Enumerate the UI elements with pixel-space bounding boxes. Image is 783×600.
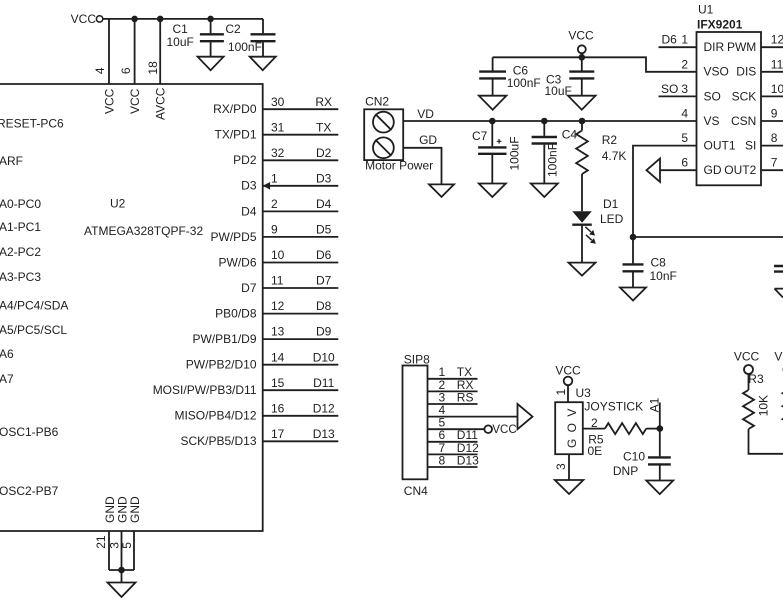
connector CN4 SIP8 body [403,352,431,498]
svg-text:A3-PC3: A3-PC3 [0,270,41,284]
svg-text:13: 13 [271,325,285,339]
svg-text:VCC: VCC [128,88,142,114]
U2 pin 9 / net D5 [210,223,338,244]
svg-text:GD: GD [704,163,722,177]
svg-text:D12: D12 [313,401,335,415]
svg-text:MOSI/PW/PB3/D11: MOSI/PW/PB3/D11 [153,383,257,397]
wire U2 pin 6 (VCC) [131,16,138,84]
svg-text:30: 30 [271,95,285,109]
U1 pin labels VS/CSN [704,114,757,128]
U2 pin 11 / net D7 [241,274,338,295]
svg-text:10: 10 [271,248,285,262]
U2 pin 31 / net TX [214,120,338,141]
U2 pin 30 / net RX [213,95,338,116]
CN4 pin 1 / net TX [428,365,478,379]
resistor R5 0E [588,423,647,458]
capacitor C3 10uF [545,72,595,98]
svg-text:A1-PC1: A1-PC1 [0,220,41,234]
svg-text:VCC: VCC [568,29,594,43]
ground (C10) [646,481,673,495]
U2 pin 10 / net D6 [218,248,338,269]
ground (D1) [569,263,596,276]
svg-text:A5/PC5/SCL: A5/PC5/SCL [0,323,67,337]
svg-text:8: 8 [439,453,446,467]
svg-text:3: 3 [554,463,568,470]
svg-text:U3: U3 [576,386,592,400]
U3 pin 3 wire [554,454,569,480]
svg-text:GD: GD [419,133,437,147]
svg-text:18: 18 [146,61,160,75]
CN4 pin 2 / net RX [428,378,478,392]
svg-text:OUT2: OUT2 [724,163,756,177]
svg-text:4: 4 [93,67,107,74]
svg-text:5: 5 [681,131,688,145]
svg-text:1: 1 [681,33,688,47]
capacitor C2 100nF [225,19,275,57]
svg-text:ARF: ARF [0,154,23,168]
U2 pin 17 / net D13 [180,427,338,448]
svg-text:10: 10 [771,82,783,96]
ground (C8) [620,288,646,301]
capacitor C9 (cut off at edge) [774,266,783,272]
wire R5 to node A1 [646,425,663,432]
svg-text:D4: D4 [316,197,332,211]
svg-text:SCK/PB5/D13: SCK/PB5/D13 [180,434,256,448]
svg-text:ATMEGA328TQPF-32: ATMEGA328TQPF-32 [84,224,203,238]
capacitor C8 10nF [623,237,677,288]
CN4 pin 7 / net D12 [428,441,480,455]
svg-text:1: 1 [271,171,278,185]
svg-text:3: 3 [681,82,688,96]
IC U2 ATMEGA328TQPF-32 body [0,84,263,531]
svg-text:2: 2 [591,416,598,430]
svg-text:AVCC: AVCC [154,87,168,120]
connector CN2 Motor Power [364,95,433,173]
wire R3 to edge [749,429,783,454]
ground (U3) [555,480,584,494]
svg-text:A6: A6 [0,347,14,361]
svg-text:C10: C10 [623,449,645,463]
svg-text:OSC2-PB7: OSC2-PB7 [0,484,59,498]
svg-text:D6: D6 [662,33,678,47]
wire U2 pin 18 (AVCC) [157,16,164,84]
svg-text:PWM: PWM [727,40,756,54]
svg-text:SIP8: SIP8 [404,352,430,366]
power flag VCC (R3) [734,350,760,391]
svg-text:9: 9 [271,223,278,237]
power flag VCC (U2 top) [71,12,103,26]
ground (C9, cut off) [775,289,783,298]
svg-text:A0-PC0: A0-PC0 [0,197,41,211]
capacitor C6 100nF [479,57,541,95]
U1 pin labels OUT1/SI [704,139,757,153]
svg-text:31: 31 [271,120,285,134]
svg-text:D11: D11 [313,376,334,390]
svg-text:C8: C8 [651,255,667,269]
U1 pin 11 wire [761,57,783,72]
svg-text:C4: C4 [562,128,578,142]
resistor R2 4.7K [576,118,626,212]
svg-text:0E: 0E [588,444,603,458]
power flag VCC (R4, cut off) [774,350,783,375]
svg-text:OUT1: OUT1 [704,139,736,153]
capacitor C4 100nF [532,118,578,184]
svg-text:RX: RX [315,95,332,109]
svg-text:D9: D9 [316,325,332,339]
wire VD rail (CN2 to U1 pin 4 VS) [403,120,696,122]
svg-text:16: 16 [271,401,285,415]
svg-text:10uF: 10uF [167,35,194,49]
svg-text:100nF: 100nF [507,76,541,90]
ground (CN2 GD) [429,184,454,197]
svg-text:2: 2 [271,197,278,211]
svg-text:VCC: VCC [734,350,760,364]
svg-text:U1: U1 [698,3,714,17]
svg-text:32: 32 [271,146,285,160]
power flag VCC (CN4 pin 5) [484,424,516,436]
svg-text:9: 9 [771,107,778,121]
ground (C6) [479,96,507,110]
wire U2 pin 4 (VCC) [108,19,110,84]
svg-text:SO: SO [661,82,678,96]
svg-text:G O V: G O V [565,407,579,448]
U1 pin 9 wire [761,107,783,122]
svg-text:21: 21 [94,535,108,549]
svg-text:15: 15 [271,376,285,390]
LED D1 [572,197,623,244]
svg-text:PD2: PD2 [233,153,257,167]
U1 pin labels GD/OUT2 [704,163,757,177]
svg-text:14: 14 [271,350,285,364]
svg-text:OSC1-PB6: OSC1-PB6 [0,425,59,439]
svg-text:12: 12 [771,33,783,47]
svg-text:D3: D3 [241,179,257,193]
svg-text:D13: D13 [457,453,479,467]
svg-text:PW/D6: PW/D6 [218,255,256,269]
svg-text:D1: D1 [603,197,619,211]
svg-text:D8: D8 [316,299,332,313]
svg-text:7: 7 [771,156,778,170]
svg-text:VCC: VCC [774,350,783,364]
svg-text:RESET-PC6: RESET-PC6 [0,117,64,131]
capacitor C10 DNP [613,429,671,481]
U1 pin 3 wire / net SO [659,82,697,97]
svg-text:VD: VD [417,107,434,121]
svg-text:CN4: CN4 [404,484,428,498]
svg-text:LED: LED [600,212,624,226]
svg-text:A2-PC2: A2-PC2 [0,245,41,259]
svg-text:RS: RS [457,390,474,404]
svg-text:D2: D2 [316,146,332,160]
svg-text:4: 4 [681,107,688,121]
svg-text:D3: D3 [316,171,332,185]
bus arrow (CN4 pin 4) [518,404,533,429]
U2 pin 32 / net D2 [233,146,338,167]
CN4 pin 6 / net D11 [428,428,479,442]
svg-text:RX/PD0: RX/PD0 [213,102,257,116]
U1 pin 7 wire [761,156,783,171]
U2 pin 13 / net D9 [192,325,338,346]
svg-text:11: 11 [771,57,783,71]
svg-text:PW/PD5: PW/PD5 [210,230,256,244]
svg-text:1: 1 [554,389,568,396]
svg-text:10K: 10K [757,395,771,416]
capacitor C7 100uF (polarized) [472,118,522,184]
svg-text:JOYSTICK: JOYSTICK [584,399,643,413]
svg-text:MISO/PB4/D12: MISO/PB4/D12 [174,409,256,423]
U2 pin 14 / net D10 [186,350,339,371]
svg-text:VSO: VSO [704,65,729,79]
svg-text:VCC: VCC [71,12,97,26]
svg-text:SCK: SCK [732,89,757,103]
svg-text:VCC: VCC [102,88,116,114]
svg-text:Motor Power: Motor Power [365,159,433,173]
U1 pin labels SO/SCK [704,89,757,103]
svg-text:100nF: 100nF [546,143,560,177]
svg-text:D10: D10 [313,350,335,364]
CN4 pin 3 / net RS [428,390,478,404]
svg-text:A4/PC4/SDA: A4/PC4/SDA [0,299,68,313]
U2 pin 12 / net D8 [215,299,338,320]
net label A1 wire [648,397,662,428]
ground (C7) [479,184,506,198]
power flag VCC (C3/U1) [568,29,594,71]
svg-text:D4: D4 [241,204,257,218]
CN4 pin 4 [428,403,518,417]
svg-text:VS: VS [704,114,720,128]
svg-text:GND: GND [128,496,142,523]
U1 pin 1 wire / net D6 [659,33,697,48]
svg-text:PW/PB2/D10: PW/PB2/D10 [186,358,257,372]
U2 pin 2 / net D4 [241,197,338,218]
ground (C2) [250,57,276,70]
wire GD (CN2 to ground) [403,148,441,185]
svg-text:R3: R3 [748,372,764,386]
svg-text:100nF: 100nF [228,40,262,54]
svg-text:PW/PB1/D9: PW/PB1/D9 [192,332,256,346]
U2 pin 16 / net D12 [174,401,338,422]
wire U2 GND pins to ground [109,531,134,583]
svg-text:12: 12 [271,299,285,313]
svg-text:8: 8 [771,131,778,145]
U2 pin 15 / net D11 [153,376,339,397]
connector U3 JOYSTICK body [555,386,643,454]
svg-text:C7: C7 [472,129,488,143]
U1 pin labels VSO/DIS [704,65,757,79]
svg-text:6: 6 [681,156,688,170]
U1 pin 8 wire [761,131,783,146]
svg-text:100uF: 100uF [508,136,522,170]
svg-text:10nF: 10nF [650,269,677,283]
svg-text:TX/PD1: TX/PD1 [214,128,256,142]
svg-text:IFX9201: IFX9201 [697,17,743,31]
wire VCC rail (C6/C3 to U1 pin 2 VSO) [493,54,697,72]
svg-text:17: 17 [271,427,285,441]
svg-text:D13: D13 [313,427,335,441]
svg-text:DIR: DIR [704,40,725,54]
U1 pin 10 wire [761,82,783,97]
capacitor C1 10uF [167,16,224,57]
ground (C4) [531,184,558,198]
U3 pin 2 wire [583,416,605,430]
svg-text:11: 11 [271,274,284,288]
CN4 pin 5 [428,416,485,430]
U1 pin 12 wire [761,33,783,48]
CN4 pin 8 / net D13 [428,453,480,467]
power flag VCC (U3) [555,364,581,403]
svg-text:U2: U2 [110,197,126,211]
ground (C3) [568,96,596,110]
svg-text:PB0/D8: PB0/D8 [215,307,257,321]
U2 pin 1 / net D3 [241,171,338,192]
U1 pin 6 wire with arrow (GD) [647,156,697,182]
svg-text:R2: R2 [602,133,618,147]
ground (C1) [198,57,224,70]
svg-text:A1: A1 [648,397,662,412]
svg-text:DNP: DNP [613,464,638,478]
wire OUT1 (U1 pin 5) [630,146,783,241]
svg-text:SO: SO [704,89,721,103]
svg-text:D7: D7 [241,281,257,295]
svg-text:VCC: VCC [492,424,516,436]
wire VCC rail to U2/C1/C2 [102,18,263,20]
svg-text:D6: D6 [316,248,332,262]
ground (U2) [108,583,136,598]
wire D1 to ground [581,225,583,263]
svg-text:TX: TX [316,120,331,134]
svg-text:A7: A7 [0,372,14,386]
svg-text:VCC: VCC [555,364,581,378]
svg-text:2: 2 [681,57,688,71]
svg-text:DIS: DIS [736,65,756,79]
svg-text:CN2: CN2 [365,95,389,109]
svg-text:CSN: CSN [731,114,756,128]
svg-text:D7: D7 [316,274,332,288]
IC U1 IFX9201 body [697,3,762,186]
svg-text:6: 6 [119,67,133,74]
svg-text:4.7K: 4.7K [602,149,627,163]
svg-text:SI: SI [745,139,756,153]
svg-text:C2: C2 [225,22,241,36]
svg-text:D5: D5 [316,223,332,237]
resistor R3 10K [743,372,771,429]
U1 pin labels DIR/PWM [704,40,757,54]
